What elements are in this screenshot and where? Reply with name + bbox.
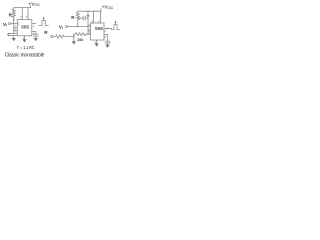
ground symbols (filled arrows): [12, 38, 110, 48]
pin numbers: [15, 14, 107, 44]
junction dots: [13, 15, 117, 37]
ground under C2: [34, 38, 38, 41]
wire pin3 output stub: [32, 22, 36, 24]
resistor R1: [12, 8, 15, 19]
terminal input right: [65, 25, 67, 27]
resistor R2: [76, 11, 79, 20]
svg-text:+VCC: +VCC: [102, 4, 114, 10]
ground stem below C2: [35, 36, 37, 38]
wire pin4 stub to Vcc: [21, 8, 23, 20]
ground under C4: [105, 45, 109, 48]
wire pin1 stub bottom right: [96, 40, 98, 43]
wire cap right stub: [85, 17, 88, 19]
wire pin3 output stub right: [104, 28, 112, 30]
capacitor C1 plate top: [11, 32, 17, 34]
capacitor C4 plate bottom: [105, 42, 110, 44]
ground stem below chain junction: [73, 36, 75, 41]
wire pin7 stub: [14, 27, 18, 29]
wire input horizontal: [68, 25, 88, 27]
diode D1 arrowhead: [87, 15, 90, 18]
ground under chain junction: [72, 41, 76, 44]
ground below C1: [13, 35, 15, 38]
ground under C1: [12, 38, 16, 41]
svg-text:555: 555: [95, 26, 103, 31]
wire pin5 down: [35, 31, 37, 34]
output pulse waveform right: [112, 25, 120, 30]
wire pin2 stub right: [88, 25, 91, 27]
node output junction right: [107, 28, 109, 30]
wire Vcc rail right: [78, 10, 101, 12]
wire cap left stub: [78, 17, 83, 19]
pulse arrow tick right: [114, 22, 116, 24]
svg-text:Classic monostable: Classic monostable: [5, 53, 45, 59]
wire pin6 stub: [14, 30, 18, 32]
node input junction right: [77, 26, 79, 28]
terminal input left: [9, 23, 11, 25]
wire R2 bottom to input junction: [77, 20, 79, 26]
wire riser to +Vcc label: [30, 6, 32, 8]
capacitor C2 plate top: [34, 33, 39, 35]
capacitor C3 plate left: [82, 16, 84, 20]
svg-text:+VCC: +VCC: [28, 1, 40, 7]
svg-text:555: 555: [21, 24, 29, 29]
capacitor C3 plate right: [84, 16, 86, 20]
555 timer U2 box: [91, 23, 105, 40]
capacitor C2 plate bottom: [34, 35, 39, 37]
output pulse waveform left: [39, 21, 48, 26]
wire pin6 stub right: [88, 30, 91, 32]
svg-text:Vi: Vi: [3, 22, 7, 28]
wire riser to +Vcc right: [100, 9, 102, 12]
svg-text:Vi: Vi: [59, 24, 63, 30]
capacitor C4 plate top: [105, 40, 110, 42]
terminal bottom chain: [51, 35, 53, 37]
wire trigger node vertical: [87, 18, 89, 34]
wire pin5 down right circuit: [107, 35, 109, 42]
capacitor C1 plate bottom: [11, 34, 17, 36]
pulse arrowhead left: [43, 17, 45, 19]
ground stem below C4: [107, 43, 109, 45]
wire pin1 ground stub: [24, 36, 26, 39]
pulse arrow tick left: [43, 18, 45, 20]
wire corner up: [73, 34, 75, 36]
node chain junction: [73, 36, 75, 38]
ground under U1 pin1: [22, 39, 26, 42]
wire pin8 stub to Vcc: [27, 8, 29, 20]
diode D1 line from rail: [87, 11, 89, 15]
ground under U2 pin1: [94, 43, 98, 46]
svg-text:T = 1.1 RC: T = 1.1 RC: [17, 45, 35, 50]
555 timer U1 box: [17, 20, 32, 36]
bottom chain: resistor R4: [53, 35, 74, 38]
pulse arrowhead right: [114, 21, 116, 23]
svg-text:10k: 10k: [77, 38, 84, 42]
wire top pin stub B: [100, 11, 102, 23]
wire pin5 stub: [32, 30, 36, 32]
wire Vcc rail left: [14, 7, 31, 9]
wire pin7 stub right: [88, 33, 91, 35]
node R1-C1 junction: [13, 19, 15, 21]
wire top pin stub A: [93, 11, 95, 23]
terminal circles: [9, 23, 68, 38]
labels gray: [3, 1, 113, 42]
wire trigger input: [11, 23, 18, 25]
wire R1 bottom to cap: [13, 19, 15, 34]
wire pin5 stub right circuit: [104, 34, 108, 36]
resistor R5 10k: [74, 33, 88, 36]
